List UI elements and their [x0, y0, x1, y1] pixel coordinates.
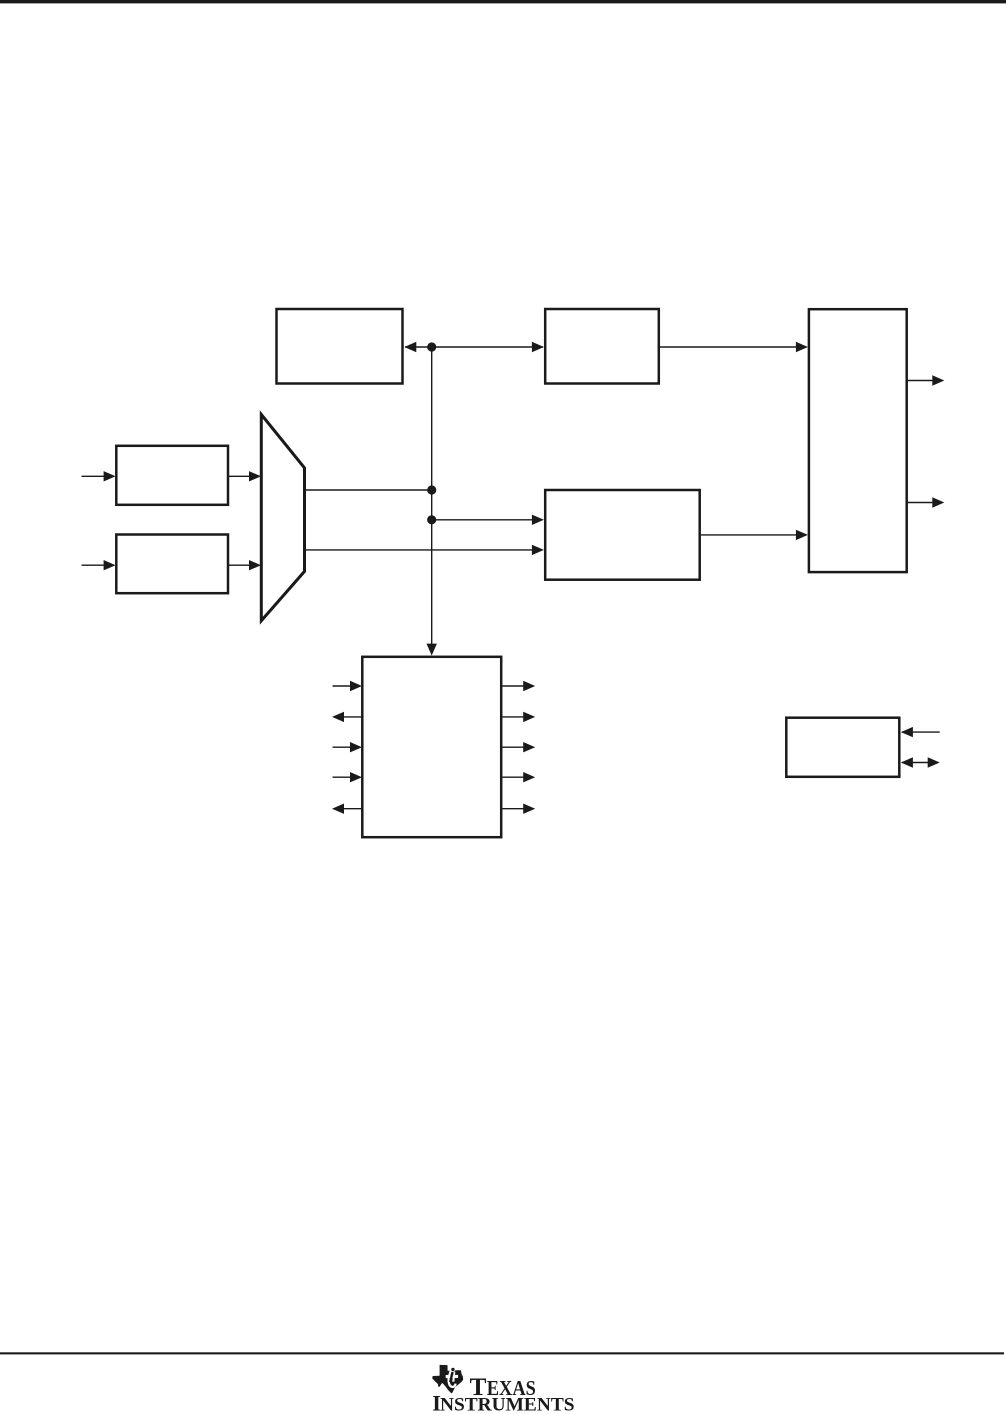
block B1 (top-left)	[277, 309, 403, 384]
block B2 (top-middle)	[545, 309, 659, 384]
arrowhead B7 right pin 4	[523, 772, 535, 782]
logo letter i stem (white)	[452, 1372, 455, 1382]
wire: B5 to MUX1	[229, 564, 259, 566]
arrowhead down into B7	[427, 644, 437, 656]
B7 left pin 3 (input) wire	[333, 746, 361, 748]
arrowhead B7 left pin 3	[350, 742, 362, 752]
wire: B2 to B3	[659, 346, 806, 348]
arrowhead B7 right pin 2	[523, 712, 535, 722]
logo letter t ascender, stem and bowl (white)	[449, 1367, 456, 1387]
B7 right pin 3 wire	[503, 746, 525, 748]
arrowhead into MUX1 upper	[249, 471, 261, 481]
wordmark INSTRUMENTS	[432, 1391, 574, 1414]
arrowhead into B8 pin 1	[901, 727, 913, 737]
B8 pin 1 (input) wire	[902, 731, 940, 733]
arrowhead B7 right pin 5	[523, 804, 535, 814]
arrowhead B8 pin 2 right	[928, 757, 940, 767]
wire: B1 to B2 horizontal	[405, 346, 543, 348]
top page rule	[0, 0, 1006, 3]
wire: B4 to MUX1	[229, 475, 259, 477]
junction dot at bus y490	[427, 485, 436, 494]
arrowhead into B3 lower	[796, 530, 808, 540]
arrowhead B7 right pin 1	[523, 681, 535, 691]
arrowhead into B4	[104, 471, 116, 481]
B7 right pin 1 wire	[503, 685, 525, 687]
logo i dot (black)	[451, 1368, 454, 1371]
block B3 (tall right)	[809, 309, 907, 572]
Texas Instruments logo: state outline	[432, 1365, 463, 1393]
wire: B6 to B3	[700, 534, 806, 536]
block B5 (left lower input)	[116, 535, 228, 594]
junction dot at bus y520	[427, 515, 436, 524]
logo letter t crossbar (white)	[446, 1375, 458, 1378]
arrowhead B7 left pin 2	[332, 712, 344, 722]
arrowhead into B3 upper	[796, 342, 808, 352]
B7 right pin 4 wire	[503, 776, 525, 778]
B7 left pin 4 (input) wire	[333, 776, 361, 778]
block B8 (right small)	[786, 718, 899, 777]
B7 right pin 5 wire	[503, 808, 525, 810]
footer page rule	[0, 1352, 1004, 1354]
arrowhead B7 left pin 1	[350, 681, 362, 691]
logo black stroke between t and i	[450, 1372, 452, 1382]
B7 left pin 1 (input) wire	[333, 685, 361, 687]
B7 right pin 2 wire	[503, 716, 525, 718]
multiplexer MUX1 (trapezoid)	[261, 415, 304, 621]
block B4 (left upper input)	[116, 446, 228, 505]
arrowhead into B1 (left)	[404, 342, 416, 352]
B7 left pin 2 (output) wire	[334, 716, 362, 718]
arrowhead B7 right pin 3	[523, 742, 535, 752]
wire: MUX1 lower output to B6	[305, 549, 543, 551]
block B6 (middle)	[545, 490, 700, 580]
wire: B3 output upper	[907, 380, 934, 382]
arrowhead B8 pin 2 left	[901, 757, 913, 767]
wire: vertical bus down to B7	[431, 347, 433, 653]
wordmark TEXAS	[470, 1374, 536, 1401]
arrowhead into B2 (right)	[532, 342, 544, 352]
logo white notch around i dot	[450, 1367, 455, 1372]
wire: bus junction to B6 upper input	[432, 519, 542, 521]
wire: B3 output lower	[907, 502, 934, 504]
svg-text:NSTRUMENTS: NSTRUMENTS	[440, 1395, 575, 1414]
block B7 (bottom-center interface)	[362, 657, 501, 837]
arrowhead B3 output upper	[932, 375, 944, 385]
arrowhead into MUX1 lower	[249, 560, 261, 570]
wire: input to B5	[82, 564, 115, 566]
arrowhead B7 left pin 4	[350, 772, 362, 782]
arrowhead into B6 lower	[532, 545, 544, 555]
arrowhead into B5	[104, 560, 116, 570]
B8 pin 2 (bidirectional) wire	[902, 762, 938, 764]
wire: input to B4	[82, 475, 115, 477]
arrowhead B3 output lower	[932, 497, 944, 507]
arrowhead into B6 upper	[532, 515, 544, 525]
wire: MUX1 output to bus junction	[305, 489, 432, 491]
junction dot at B1-B2 wire	[427, 342, 436, 351]
B7 left pin 5 (output) wire	[334, 808, 362, 810]
arrowhead B7 left pin 5	[332, 804, 344, 814]
